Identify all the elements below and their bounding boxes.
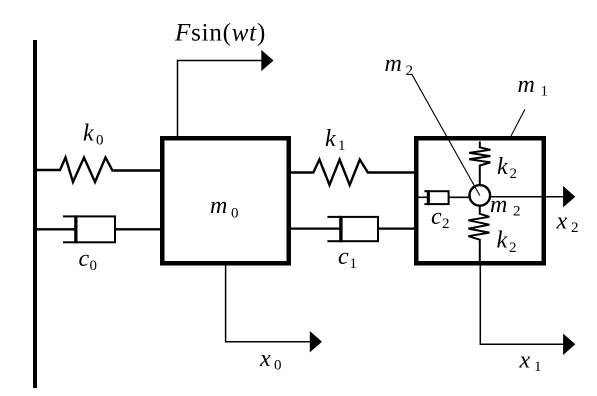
svg-text:1: 1 bbox=[534, 359, 542, 375]
svg-text:0: 0 bbox=[90, 258, 98, 274]
svg-text:k: k bbox=[497, 154, 508, 180]
svg-text:c: c bbox=[431, 204, 442, 230]
damper c1 piston bbox=[339, 216, 342, 242]
damper c0 rod bbox=[37, 228, 76, 230]
svg-text:m: m bbox=[490, 192, 507, 218]
damper c2 out rod bbox=[449, 196, 470, 198]
svg-text:x: x bbox=[259, 346, 271, 372]
damper c1 cylinder bbox=[342, 217, 378, 241]
svg-text:x: x bbox=[519, 348, 531, 374]
svg-text:c: c bbox=[79, 246, 90, 272]
damper c0 out rod bbox=[115, 228, 160, 230]
svg-text:2: 2 bbox=[510, 166, 518, 182]
force arrowhead bbox=[261, 50, 273, 71]
svg-text:1: 1 bbox=[350, 256, 358, 272]
damper c2 cylinder bbox=[429, 191, 449, 204]
spring k2 bottom bbox=[468, 207, 489, 264]
svg-text:1: 1 bbox=[338, 138, 346, 154]
svg-text:0: 0 bbox=[274, 358, 282, 374]
svg-text:2: 2 bbox=[571, 220, 579, 236]
mass m0 box bbox=[162, 138, 289, 263]
arrowhead x1 bbox=[563, 334, 575, 355]
svg-text:x: x bbox=[556, 209, 568, 235]
svg-text:2: 2 bbox=[442, 216, 450, 232]
svg-text:k: k bbox=[325, 126, 336, 152]
arrow x1 tail bbox=[480, 266, 565, 345]
svg-text:2: 2 bbox=[513, 204, 521, 220]
svg-text:2: 2 bbox=[509, 240, 517, 256]
spring k1 bbox=[291, 160, 414, 186]
arrowhead x0 bbox=[310, 331, 322, 352]
pointer tip inside circle bbox=[473, 183, 480, 196]
arrow x0 tail bbox=[226, 266, 312, 342]
damper c1 rod bbox=[291, 227, 341, 229]
svg-text:0: 0 bbox=[231, 205, 239, 221]
damper c0 piston bbox=[74, 215, 77, 243]
svg-text:1: 1 bbox=[541, 84, 549, 100]
svg-text:Fsin(wt): Fsin(wt) bbox=[174, 20, 266, 47]
svg-text:c: c bbox=[338, 244, 349, 270]
spring k0 bbox=[37, 158, 160, 183]
arrow x2 bbox=[490, 196, 565, 198]
mass m1 box bbox=[416, 138, 544, 263]
damper c2 rod bbox=[418, 196, 429, 198]
pointer line m1 bbox=[511, 109, 525, 136]
svg-text:0: 0 bbox=[96, 133, 104, 149]
force line F bbox=[178, 61, 264, 137]
wall bbox=[33, 40, 37, 388]
spring k2 top bbox=[469, 142, 490, 185]
svg-text:m: m bbox=[210, 193, 227, 219]
small mass m2 circle bbox=[470, 185, 491, 206]
svg-text:m: m bbox=[385, 51, 402, 77]
damper c2 piston bbox=[427, 190, 429, 205]
svg-text:m: m bbox=[518, 72, 535, 98]
damper c0 cylinder bbox=[77, 216, 116, 242]
pointer line m2 bbox=[412, 74, 480, 195]
svg-text:2: 2 bbox=[406, 63, 414, 79]
damper c1 out rod bbox=[378, 227, 414, 229]
svg-text:k: k bbox=[83, 121, 94, 147]
svg-text:k: k bbox=[497, 228, 508, 254]
